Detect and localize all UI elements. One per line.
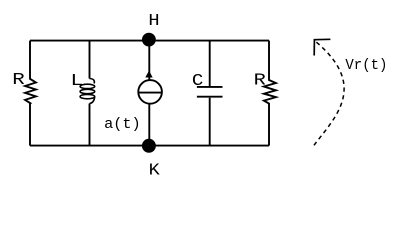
svg-text:H: H — [148, 12, 159, 31]
svg-text:L: L — [70, 72, 83, 91]
svg-text:K: K — [149, 162, 161, 181]
svg-text:R: R — [254, 72, 266, 91]
svg-text:a(t): a(t) — [104, 117, 141, 133]
svg-text:R: R — [12, 71, 25, 90]
svg-text:C: C — [192, 72, 204, 91]
svg-text:Vr(t): Vr(t) — [345, 58, 387, 74]
